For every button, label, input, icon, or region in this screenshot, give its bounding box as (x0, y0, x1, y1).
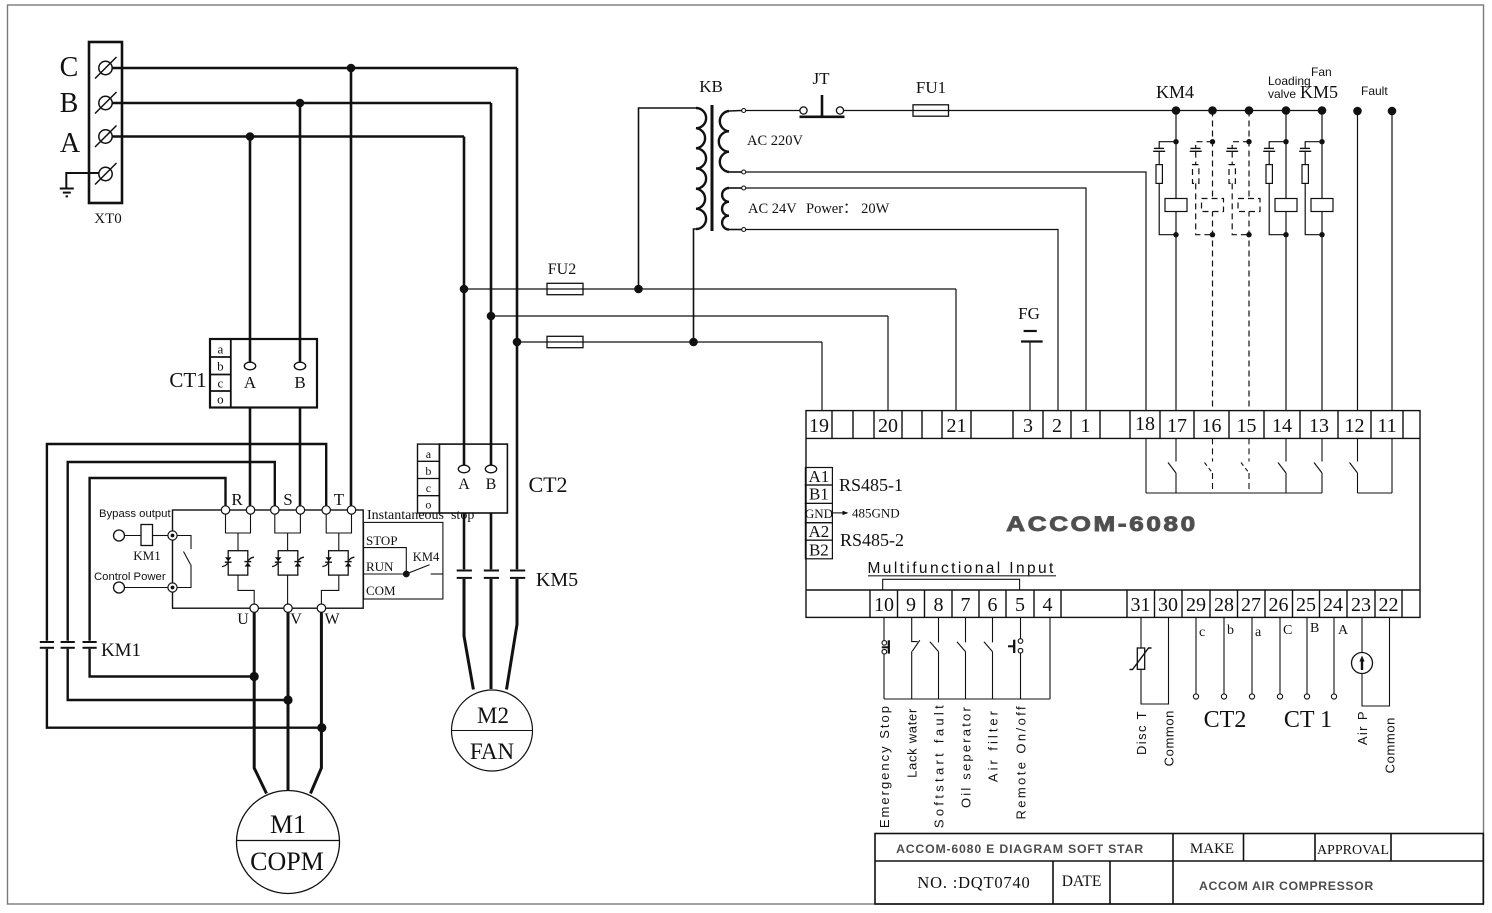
wire phase B horizontal (112, 102, 491, 105)
svg-text:B1: B1 (809, 485, 829, 504)
svg-text:MAKE: MAKE (1190, 841, 1234, 857)
svg-text:29: 29 (1186, 594, 1206, 616)
svg-text:Power： 20W: Power： 20W (806, 201, 890, 217)
svg-text:S: S (283, 490, 292, 509)
thermistor Disc T (terminal 31) (1130, 617, 1169, 704)
svg-text:KB: KB (699, 77, 723, 96)
fuse FU1 (913, 105, 949, 116)
node RUN-KM4 (403, 571, 410, 578)
transformer secondary AC220V winding (719, 111, 729, 172)
svg-text:COPM: COPM (250, 847, 324, 876)
svg-text:25: 25 (1296, 594, 1316, 616)
contactor branch Loading valve (1263, 74, 1311, 411)
svg-text:14: 14 (1272, 415, 1292, 437)
input Air filter switch (terminal 6) (984, 617, 993, 699)
wire primary bottom lead (694, 229, 697, 342)
svg-text:FG: FG (1018, 304, 1040, 323)
sense wire letters (1199, 621, 1349, 640)
terminal row top dividers (832, 411, 1403, 439)
wire phase A CT1 to starter R (249, 408, 252, 507)
wire phase C turn down to fan branch (516, 68, 519, 342)
svg-text:KM5: KM5 (1300, 82, 1338, 102)
relay contact 17 (1168, 438, 1176, 493)
wire phase C drop to starter T (350, 68, 353, 507)
svg-text:ACCOM-6080 E DIAGRAM SOFT STAR: ACCOM-6080 E DIAGRAM SOFT STAR (896, 842, 1144, 856)
wire AC220V bus to contactor coils (949, 110, 1323, 112)
svg-text:a: a (426, 447, 432, 461)
svg-text:Instantaneous stop: Instantaneous stop (367, 508, 474, 523)
motor M2 (452, 690, 533, 771)
svg-text:NO. :DQT0740: NO. :DQT0740 (917, 873, 1030, 892)
svg-text:A2: A2 (809, 522, 830, 541)
svg-text:KM4: KM4 (413, 550, 440, 564)
svg-text:B: B (60, 88, 79, 119)
terminal block XT0 (89, 42, 122, 203)
title block (875, 834, 1483, 905)
relay contact 15 (dashed) (1241, 438, 1249, 493)
svg-text:W: W (324, 611, 340, 628)
svg-text:17: 17 (1167, 415, 1187, 437)
svg-text:Air filter: Air filter (986, 708, 1001, 782)
terminal row bottom inner line (806, 589, 1420, 591)
svg-text:Oil seperator: Oil seperator (959, 705, 974, 808)
wire AC24V bottom to terminal 2 (746, 230, 1058, 412)
svg-text:24: 24 (1323, 594, 1343, 616)
wire control line 1 (phase A tap) (464, 288, 956, 290)
ground FG (1018, 304, 1042, 411)
svg-text:KM4: KM4 (1156, 82, 1194, 102)
input Oil seperator switch (terminal 7) (957, 617, 966, 699)
starter input terminals T (322, 506, 356, 514)
node U bypass junction (250, 672, 259, 681)
contactor branch (spare, dashed) (1190, 106, 1224, 411)
svg-text:28: 28 (1214, 594, 1234, 616)
svg-text:b: b (425, 464, 431, 478)
multifunctional input bracket (883, 579, 1020, 590)
svg-text:A1: A1 (809, 467, 830, 486)
svg-text:C: C (60, 52, 79, 83)
terminal control power (114, 582, 125, 593)
terminal CT1-A (244, 362, 255, 370)
starter output terminal W (317, 604, 325, 612)
contactor branch KM4 (1153, 82, 1194, 411)
pushbutton JT (800, 69, 845, 117)
svg-text:485GND: 485GND (852, 506, 900, 521)
transformer core (711, 105, 714, 231)
contactor KM5 contact 3 (510, 571, 525, 578)
svg-text:Control Power: Control Power (94, 571, 166, 583)
svg-text:3: 3 (1023, 415, 1033, 437)
thyristor module T (322, 551, 354, 575)
svg-text:XT0: XT0 (94, 211, 122, 227)
wire phase A horizontal (112, 135, 464, 138)
Fault output wire (1353, 84, 1388, 411)
node line1-transformer junction (634, 285, 643, 294)
motor M1 (237, 791, 340, 894)
svg-text:A: A (60, 128, 81, 159)
bypass wire S to rail 2 (68, 462, 275, 641)
svg-text:o: o (217, 392, 224, 407)
wire phase B turn down to fan branch (490, 103, 493, 316)
relay common bus 18-13 (1146, 492, 1322, 494)
svg-text:Emergency Stop: Emergency Stop (877, 704, 892, 828)
svg-text:Lack water: Lack water (905, 708, 920, 778)
current transformer CT2 block (418, 444, 568, 513)
terminal CT2-B (485, 465, 496, 473)
svg-text:5: 5 (1015, 594, 1025, 616)
wire T module to W (321, 575, 338, 604)
wire phase B drop to CT1 B (299, 103, 302, 363)
svg-text:9: 9 (906, 594, 916, 616)
ground symbol at XT0 (60, 173, 99, 196)
terminal starter control in (168, 583, 177, 592)
KM1 aux switch inside starter (177, 536, 191, 588)
relay contact 13 (1314, 438, 1322, 493)
svg-text:T: T (334, 490, 345, 509)
svg-text:b: b (217, 359, 224, 374)
svg-text:31: 31 (1131, 594, 1151, 616)
wire primary top lead (639, 108, 697, 289)
terminal starter bypass out (168, 531, 177, 540)
svg-text:M2: M2 (477, 703, 509, 728)
svg-text:a: a (1255, 625, 1262, 640)
contactor KM1 contact 2 (61, 642, 75, 648)
control box KM4 (stop/run/com) (364, 522, 443, 599)
terminal row top inner line (806, 437, 1420, 439)
svg-text:CT2: CT2 (1204, 707, 1247, 733)
terminal bypass output (114, 530, 125, 541)
contactor branch (spare 2, dashed) (1226, 106, 1260, 411)
svg-text:CT 1: CT 1 (1284, 707, 1332, 733)
starter output terminal V (284, 604, 292, 612)
node line2-B junction (487, 312, 496, 321)
wire line2 drop to terminal 20 (887, 316, 889, 411)
input common bus (884, 698, 1050, 700)
terminal numbers bottom row (874, 594, 1399, 616)
svg-text:Common: Common (1162, 710, 1177, 766)
svg-text:RUN: RUN (366, 559, 394, 574)
svg-text:6: 6 (988, 594, 998, 616)
fuse FU2 (lower) (547, 336, 583, 347)
soft starter box (173, 510, 364, 608)
relay bus 12-11 (1358, 492, 1393, 494)
svg-text:CT2: CT2 (528, 472, 567, 497)
svg-text:FU2: FU2 (548, 261, 576, 278)
svg-text:b: b (1227, 623, 1234, 638)
terminal row bottom dividers (870, 590, 1402, 617)
starter input terminals S (271, 506, 305, 514)
svg-text:12: 12 (1345, 415, 1365, 437)
relay contact 16 (dashed) (1205, 438, 1213, 493)
node A junction (246, 132, 255, 141)
svg-text:Multifunctional Input: Multifunctional Input (868, 560, 1056, 577)
svg-text:c: c (218, 376, 224, 391)
svg-text:Fan: Fan (1311, 65, 1332, 79)
wire KM5-2 to motor M2 (490, 579, 493, 689)
485GND arrow and label (833, 512, 846, 514)
wire KM5-1 to motor M2 (464, 579, 473, 690)
svg-text:16: 16 (1202, 415, 1222, 437)
svg-text:Bypass output: Bypass output (99, 508, 171, 520)
svg-text:18: 18 (1135, 413, 1155, 435)
relay contact 11 lead (1391, 438, 1393, 493)
svg-text:1: 1 (1081, 415, 1091, 437)
wire KM5-3 to motor M2 (507, 579, 518, 690)
svg-text:23: 23 (1351, 594, 1371, 616)
relay contact 12 (1350, 438, 1358, 493)
wire common terminal 4 (1049, 617, 1051, 699)
fan wire A through CT2 (463, 289, 466, 466)
svg-text:Softstart fault: Softstart fault (932, 702, 947, 828)
fan wire C (516, 342, 519, 569)
wire line1 drop to terminal 21 (955, 289, 957, 411)
svg-text:30: 30 (1158, 594, 1178, 616)
terminal sec2 bottom (729, 229, 742, 231)
svg-text:11: 11 (1377, 415, 1396, 437)
node B junction (296, 99, 305, 108)
wire phase C horizontal (112, 67, 517, 70)
pressure sensor Air P (terminal 23) (1352, 617, 1390, 706)
svg-text:22: 22 (1379, 594, 1399, 616)
ACCOM-6080 logo (1006, 512, 1197, 536)
svg-text:Remote On/off: Remote On/off (1014, 704, 1029, 820)
Fault output wire 2 (1388, 107, 1397, 411)
contactor KM1 contact 1 (40, 642, 54, 648)
current transformer CT1 block (169, 339, 317, 408)
wire JT to FU1 (844, 110, 950, 112)
terminal CT1-B (294, 362, 305, 370)
input Lack water switch (terminal 9) (912, 617, 920, 699)
svg-text:valve: valve (1268, 87, 1296, 101)
wire W to motor M1 (311, 612, 322, 793)
svg-text:c: c (1199, 625, 1205, 640)
svg-text:7: 7 (961, 594, 971, 616)
svg-text:CT1: CT1 (169, 368, 206, 392)
svg-text:COM: COM (366, 583, 396, 598)
svg-text:ACCOM AIR COMPRESSOR: ACCOM AIR COMPRESSOR (1199, 879, 1374, 893)
svg-text:26: 26 (1269, 594, 1289, 616)
CT2 sense wires c b a (terminals 29 28 27) (1193, 617, 1254, 699)
wire AC220V bottom to terminal 18 (746, 172, 1146, 411)
wire control line 2 (phase B tap) (491, 315, 888, 317)
svg-text:A: A (1338, 623, 1349, 638)
terminal sec1 bottom (729, 171, 742, 173)
svg-text:Disc T: Disc T (1134, 710, 1149, 755)
svg-text:15: 15 (1237, 415, 1257, 437)
svg-text:DATE: DATE (1062, 873, 1102, 890)
svg-text:RS485-1: RS485-1 (839, 475, 903, 495)
svg-text:c: c (426, 481, 431, 495)
svg-text:a: a (218, 342, 224, 357)
wire FG to terminal 3 (1029, 342, 1031, 412)
svg-text:U: U (237, 611, 249, 628)
transformer KB (639, 77, 890, 342)
svg-text:AC 220V: AC 220V (747, 133, 804, 149)
wire line3 drop to terminal 19 (821, 342, 823, 411)
svg-text:o: o (425, 498, 431, 512)
CT1 sense wires C B A (terminals 26 25 24) (1277, 617, 1336, 699)
svg-text:ACCOM-6080: ACCOM-6080 (1006, 512, 1197, 536)
fuse FU2 (upper) (547, 283, 583, 294)
bypass wire rail1 to W node (47, 649, 322, 728)
svg-text:B: B (294, 373, 305, 392)
svg-text:C: C (1283, 623, 1292, 638)
svg-text:AC 24V: AC 24V (748, 201, 797, 217)
wire STOP (364, 548, 407, 574)
svg-text:JT: JT (813, 69, 831, 88)
svg-text:13: 13 (1309, 415, 1329, 437)
wire RUN (364, 573, 407, 575)
wire phase B CT1 to starter S (299, 408, 302, 507)
svg-text:19: 19 (809, 415, 829, 437)
svg-text:KM1: KM1 (133, 548, 160, 563)
relay contact 18 lead (1145, 438, 1147, 493)
svg-text:V: V (290, 611, 302, 628)
transformer secondary AC24V winding (722, 188, 729, 230)
wire control line 3 (phase C tap) (517, 341, 822, 343)
svg-text:Fault: Fault (1361, 84, 1388, 98)
contactor branch Fan KM5 (1299, 65, 1338, 411)
svg-text:FAN: FAN (470, 739, 515, 764)
node line3-C junction (513, 338, 522, 347)
svg-text:RS485-2: RS485-2 (840, 530, 904, 550)
bypass wire rail3 to U node (90, 649, 255, 677)
T phase pocket (326, 514, 351, 533)
svg-text:APPROVAL: APPROVAL (1317, 843, 1389, 858)
svg-text:B: B (1310, 621, 1319, 636)
svg-text:KM1: KM1 (101, 640, 141, 661)
RS485 terminal boxes A1 B1 GND A2 B2 (805, 468, 832, 559)
contactor KM5 contact 1 (457, 571, 472, 578)
svg-text:STOP: STOP (366, 533, 398, 548)
node W bypass junction (317, 723, 326, 732)
terminal sec1 top (729, 110, 742, 113)
svg-text:21: 21 (947, 415, 967, 437)
svg-text:Air P: Air P (1355, 710, 1370, 745)
starter output terminal U (250, 604, 258, 612)
svg-text:GND: GND (805, 506, 833, 521)
contactor KM5 contact 2 (484, 571, 499, 578)
svg-text:FU1: FU1 (916, 78, 946, 97)
svg-text:10: 10 (874, 594, 894, 616)
node V bypass junction (283, 695, 292, 704)
input Remote On/off button (terminal 5) (1008, 617, 1023, 699)
svg-text:KM5: KM5 (536, 569, 578, 591)
input Softstart fault switch (terminal 8) (930, 617, 939, 699)
terminal CT2-A (458, 465, 469, 473)
svg-text:2: 2 (1052, 415, 1062, 437)
thyristor module S (272, 551, 304, 575)
R phase pocket (226, 514, 251, 533)
wire phase A drop to CT1 A (249, 137, 252, 363)
node line1-A junction (460, 285, 469, 294)
relay contact 14 (1278, 438, 1286, 493)
controller unit ACCOM-6080 box (806, 411, 1420, 618)
svg-text:R: R (231, 490, 243, 509)
transformer primary winding (696, 108, 706, 229)
wire AC24V top to terminal 1 (746, 188, 1086, 411)
terminal numbers top row (809, 413, 1397, 437)
coil KM1 (125, 535, 142, 537)
wire phase A turn down to fan branch (463, 137, 466, 290)
node C junction (347, 64, 356, 73)
wire U to motor M1 (254, 612, 266, 793)
wire AC220V top to JT (746, 110, 800, 112)
starter input terminals R (221, 506, 254, 514)
wire S module to V (287, 575, 289, 604)
svg-text:27: 27 (1241, 594, 1261, 616)
svg-text:Common: Common (1383, 717, 1398, 773)
bypass wire rail2 to V node (68, 649, 288, 700)
terminal sec2 top (729, 187, 742, 189)
fan wire B through CT2 (490, 316, 493, 466)
bypass wire T to rail 1 (47, 444, 326, 641)
svg-text:B2: B2 (809, 541, 829, 560)
svg-text:A: A (244, 373, 257, 392)
S phase pocket (275, 514, 301, 533)
svg-text:M1: M1 (270, 810, 306, 839)
svg-text:4: 4 (1043, 594, 1053, 616)
svg-text:B: B (486, 476, 497, 493)
bypass wire R to rail 3 (90, 478, 226, 641)
wire V to motor M1 (287, 612, 290, 790)
wire R module to U (238, 575, 254, 604)
node line3-transformer junction (689, 338, 698, 347)
svg-text:A: A (458, 476, 470, 493)
contactor KM1 contact 3 (83, 642, 97, 648)
svg-text:8: 8 (934, 594, 944, 616)
input Emergency Stop (terminal 10) (882, 617, 889, 699)
svg-text:20: 20 (878, 415, 898, 437)
thyristor module R (222, 551, 254, 575)
